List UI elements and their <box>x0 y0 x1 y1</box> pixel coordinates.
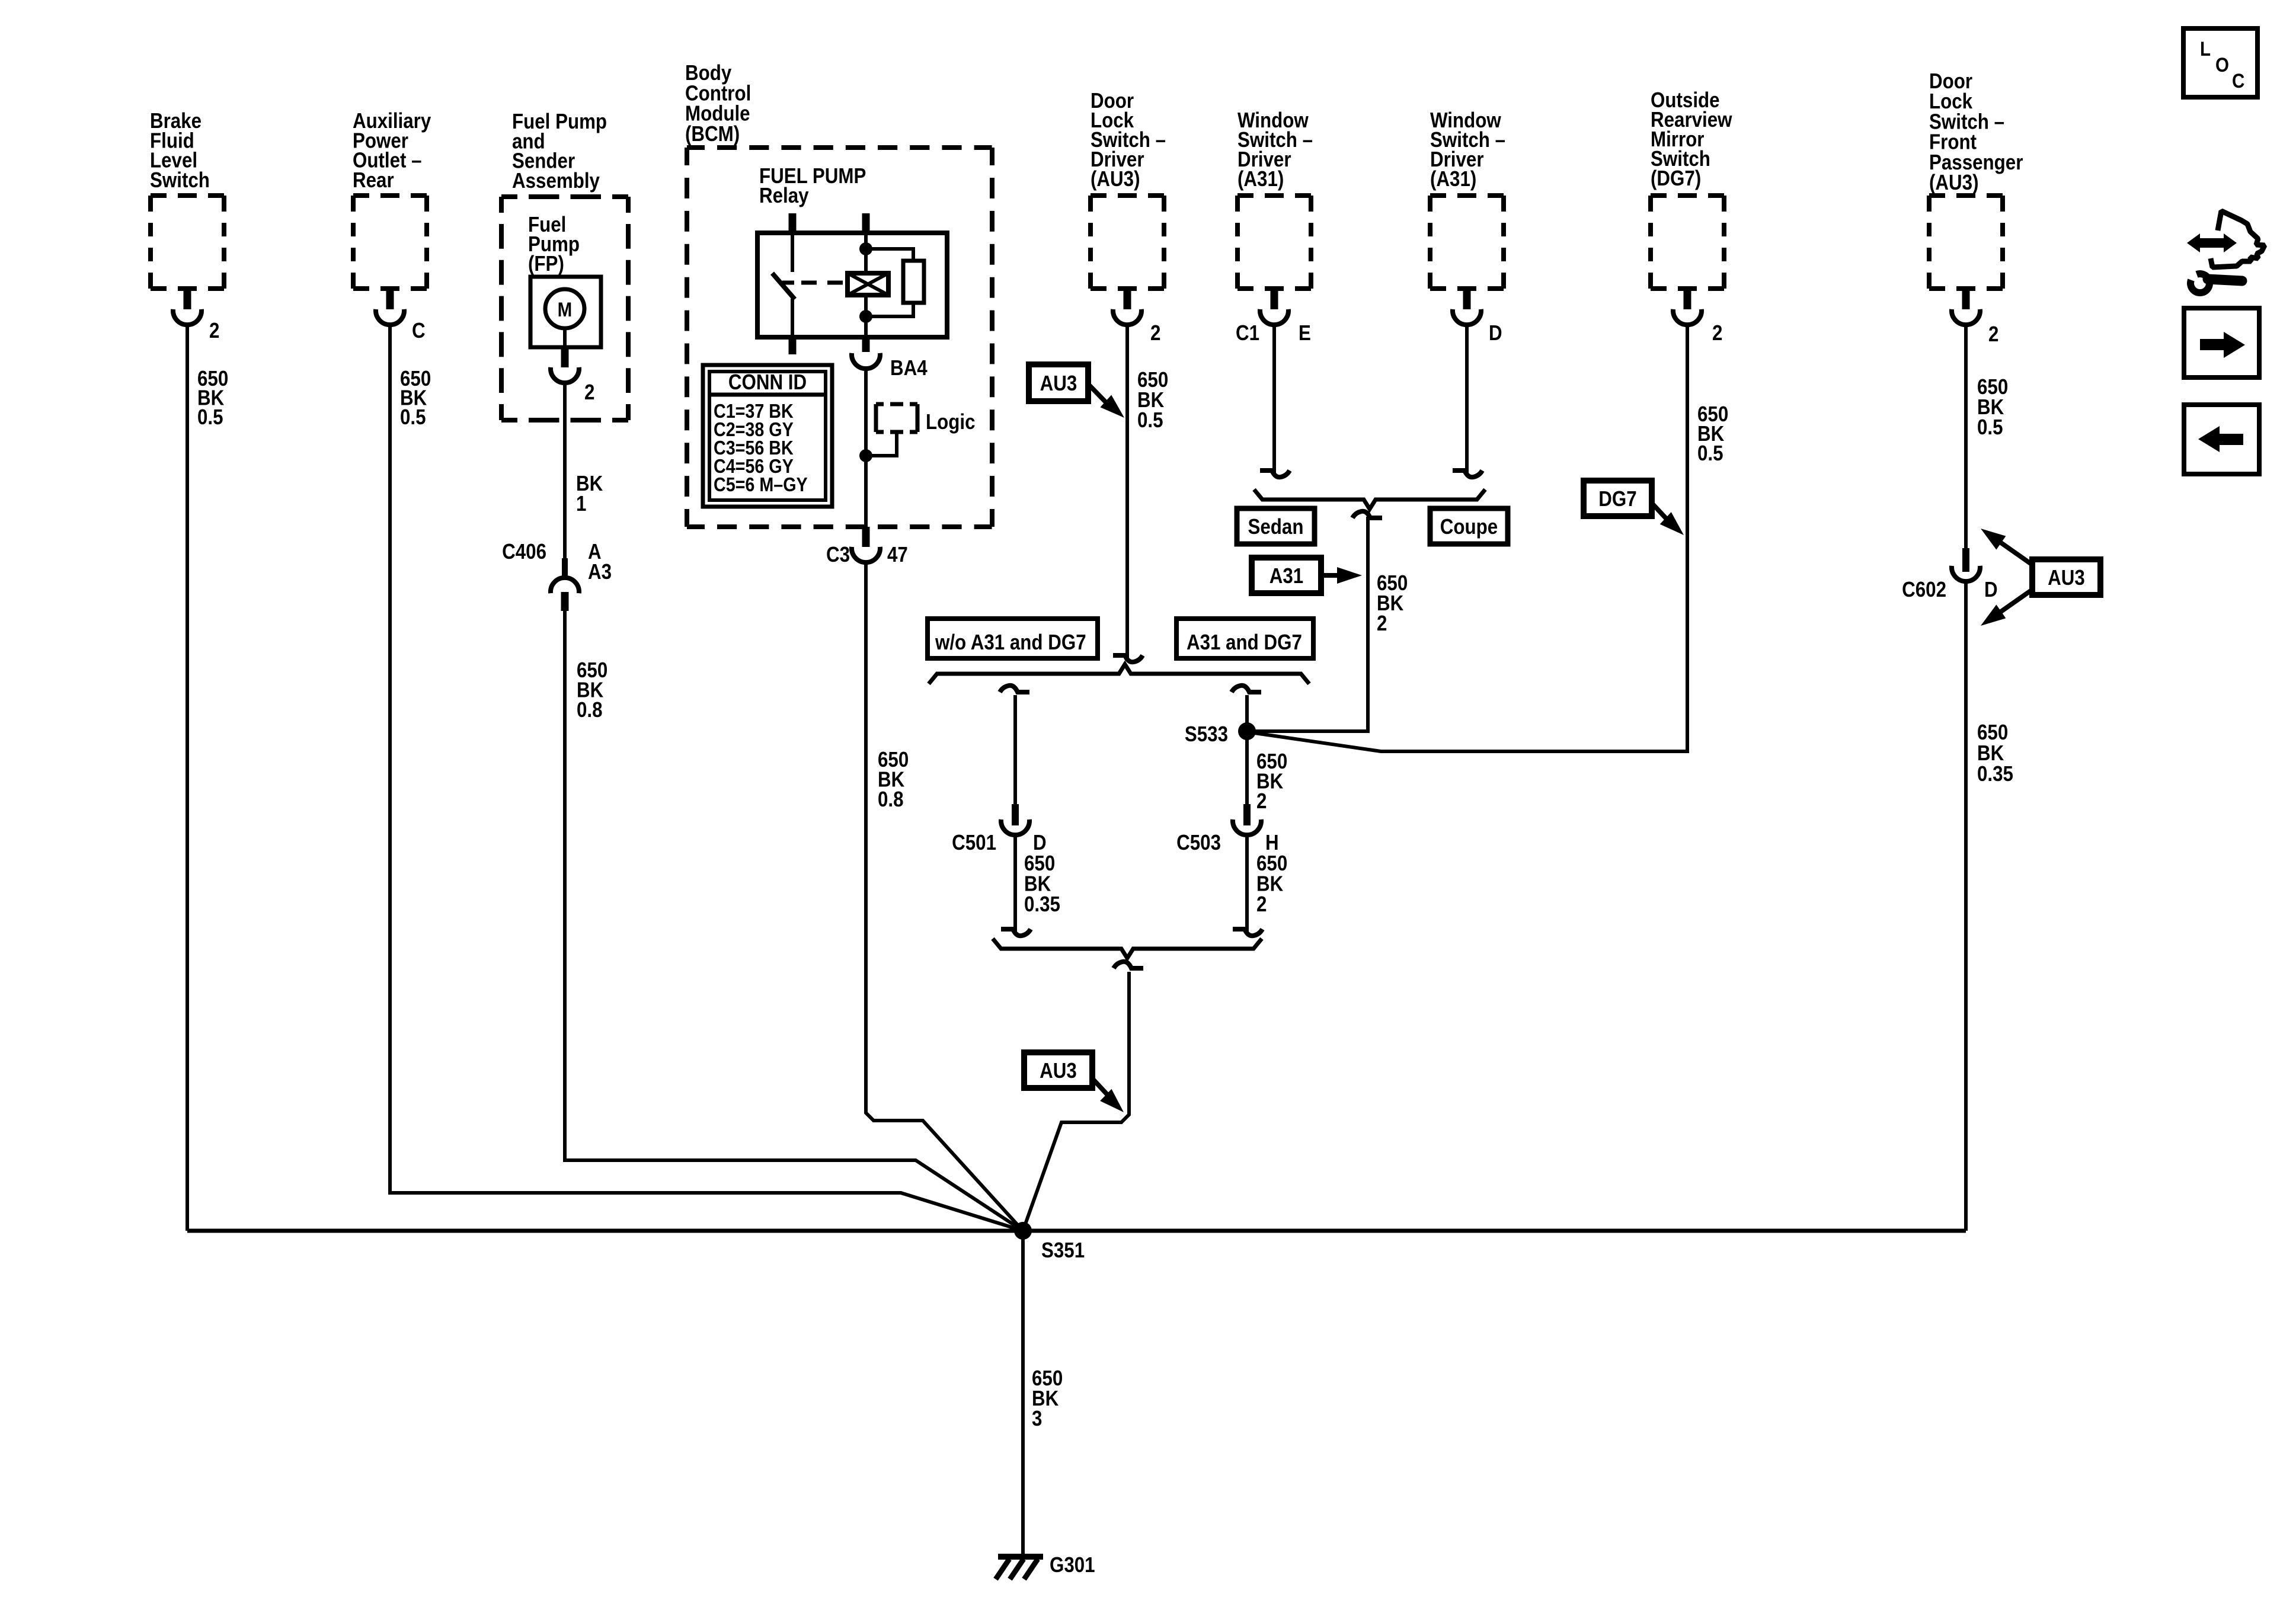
wire label 650 BK 3 <box>1032 1366 1063 1431</box>
svg-text:C406: C406 <box>502 540 546 564</box>
svg-text:A31 and DG7: A31 and DG7 <box>1187 630 1302 655</box>
connector label C602 <box>1902 578 1946 602</box>
label Door Lock Switch - Front Passenger (AU3) <box>1929 69 2023 195</box>
relay pin stub bottom right <box>862 337 870 352</box>
svg-text:D: D <box>1489 321 1502 345</box>
connector BA4 cup <box>852 353 880 369</box>
pin label 2 <box>1988 322 1998 347</box>
wire logic box to main wire <box>868 432 897 456</box>
relay pin stub top left <box>789 213 797 233</box>
wire label 650 BK 0.35 <box>1024 852 1060 917</box>
svg-text:AU3: AU3 <box>1040 1059 1077 1083</box>
svg-text:0.5: 0.5 <box>1137 408 1163 433</box>
tag A31 with arrow <box>1252 558 1362 593</box>
svg-text:C503: C503 <box>1176 831 1221 855</box>
wire label 650 BK 0.5 <box>1137 368 1168 433</box>
component Window Switch - Driver A31 coupe (dashed box) <box>1430 196 1504 289</box>
svg-text:C5=6 M–GY: C5=6 M–GY <box>714 473 808 495</box>
svg-text:(AU3): (AU3) <box>1929 171 1978 195</box>
svg-text:0.8: 0.8 <box>577 698 603 722</box>
component Outside Rearview Mirror Switch DG7 (dashed box) <box>1651 196 1724 289</box>
relay FUEL PUMP box <box>757 233 947 337</box>
relay switch blade <box>772 273 795 299</box>
svg-text:0.8: 0.8 <box>878 788 904 812</box>
connector terminal pin 2 (door lock switch driver) <box>1113 289 1141 325</box>
svg-text:2: 2 <box>1256 789 1267 814</box>
curl below sedan/coupe brace <box>1352 511 1382 518</box>
svg-text:(BCM): (BCM) <box>685 122 740 146</box>
wire 650 BK 0.5 (door lock driver to split brace) <box>1113 325 1143 662</box>
label Door Lock Switch - Driver (AU3) <box>1091 89 1166 191</box>
wire 650 BK 0.5 (front passenger lock switch to C602) <box>1964 325 1968 550</box>
vehicle service icon (car outline) <box>2211 211 2265 267</box>
wire label 650 BK 0.35 <box>1977 721 2013 786</box>
relay coil wire bottom <box>864 295 868 337</box>
wire merged branch to S351 <box>1023 972 1129 1231</box>
label Fuel Pump and Sender Assembly <box>512 110 607 193</box>
module Body Control Module BCM (dashed box) <box>687 148 992 527</box>
tag box Sedan <box>1237 508 1315 544</box>
svg-text:0.5: 0.5 <box>1977 415 2003 440</box>
svg-text:C602: C602 <box>1902 578 1946 602</box>
wire label 650 BK 2 (S533 to C503) <box>1256 750 1287 814</box>
connector terminal pin D (window switch coupe) <box>1453 289 1481 325</box>
connector terminal C3 pin 47 (BCM bottom) <box>852 527 880 562</box>
svg-text:2: 2 <box>1988 322 1998 347</box>
label Auxiliary Power Outlet - Rear <box>353 109 431 192</box>
wire label 650 BK 0.8 <box>878 748 909 812</box>
tag AU3 with double arrows (C602) <box>1981 529 2100 626</box>
table header CONN ID <box>728 370 807 395</box>
table rows connector ids <box>714 400 808 495</box>
connector label BA4 <box>890 356 928 380</box>
pin label D <box>1984 578 1998 602</box>
pin label D <box>1033 831 1047 855</box>
relay resistor loop <box>866 249 924 316</box>
relay actuator dashed link <box>801 281 844 285</box>
junction label S533 <box>1185 722 1228 747</box>
icon box arrow right <box>2184 308 2259 377</box>
component Fuel Pump and Sender Assembly (dashed box) <box>501 197 628 420</box>
svg-text:C1: C1 <box>1236 321 1259 345</box>
svg-text:Sedan: Sedan <box>1248 515 1304 539</box>
wire 650 BK 0.8 (BCM pin 47 to S351) <box>866 562 1023 1231</box>
svg-text:C: C <box>2232 69 2244 92</box>
label Body Control Module (BCM) <box>685 61 751 146</box>
pin label 47 <box>887 543 908 567</box>
svg-text:2: 2 <box>584 380 594 405</box>
option box w/o A31 and DG7 <box>928 619 1098 658</box>
wire window switch coupe to merge brace <box>1453 325 1482 477</box>
junction dot coil bottom <box>859 310 872 323</box>
svg-text:2: 2 <box>1712 321 1722 345</box>
brace merge sedan/coupe window switch wires <box>1254 489 1485 509</box>
table CONN ID box <box>703 365 832 507</box>
in-line connector C503 <box>1233 804 1261 835</box>
wire label BK 1 <box>576 472 603 516</box>
label Window Switch - Driver (A31) <box>1430 108 1505 191</box>
connector terminal pin 2 (fuel pump) <box>551 347 579 383</box>
wire relay to logic junction <box>864 369 868 527</box>
connector label C503 <box>1176 831 1221 855</box>
ground symbol G301 <box>996 1557 1043 1579</box>
svg-text:0.5: 0.5 <box>400 405 426 430</box>
wire 650 BK 0.5 (brake switch to S351 ground bus) <box>186 325 189 1231</box>
svg-text:A3: A3 <box>588 560 612 584</box>
LOC legend box <box>2183 28 2257 97</box>
relay pin stub bottom left <box>789 337 797 354</box>
wire 650 BK 0.5 (aux outlet to S351) <box>390 325 1023 1231</box>
wire right branch to S533 <box>1232 686 1261 806</box>
svg-text:Relay: Relay <box>759 184 809 208</box>
svg-text:0.35: 0.35 <box>1024 892 1060 917</box>
tag AU3 with arrow <box>1029 364 1124 418</box>
pin label 2 <box>209 319 219 343</box>
label Logic <box>926 410 975 434</box>
connector terminal pin E (window switch sedan) <box>1260 289 1288 325</box>
svg-text:S533: S533 <box>1185 722 1228 747</box>
label Window Switch - Driver (A31) <box>1237 108 1313 191</box>
pin label C1 <box>1236 321 1259 345</box>
connector label C406 <box>502 540 546 564</box>
svg-text:S351: S351 <box>1041 1238 1085 1263</box>
wire label 650 BK 2 <box>1256 852 1287 917</box>
svg-text:0.5: 0.5 <box>1697 441 1723 466</box>
wire 650 BK 2 (C503 to merge brace) <box>1233 835 1262 936</box>
ground bus wire (S351 splice) <box>187 1229 1966 1233</box>
ground label G301 <box>1050 1553 1095 1577</box>
junction dot S533 <box>1238 722 1256 740</box>
wire motor to box bottom <box>563 328 567 347</box>
svg-text:47: 47 <box>887 543 908 567</box>
svg-text:0.5: 0.5 <box>197 405 223 430</box>
junction dot coil top <box>859 242 872 255</box>
motor symbol M circle <box>545 289 584 328</box>
svg-text:O: O <box>2215 53 2229 76</box>
fuel pump motor box <box>530 277 601 347</box>
svg-text:M: M <box>558 298 573 321</box>
wire label 650 BK 0.5 <box>1697 402 1728 466</box>
pin label C <box>412 319 426 343</box>
svg-text:BA4: BA4 <box>890 356 928 380</box>
pin label E <box>1299 321 1311 345</box>
svg-text:(A31): (A31) <box>1237 167 1284 191</box>
relay switch fixed contact <box>782 233 794 283</box>
wire label 650 BK 0.5 <box>197 367 228 430</box>
wire label 650 BK 0.5 <box>400 367 431 430</box>
in-line connector C602 <box>1952 548 1980 581</box>
in-line connector C406 <box>551 558 579 611</box>
svg-text:Switch: Switch <box>150 168 210 193</box>
svg-text:D: D <box>1984 578 1998 602</box>
svg-text:C501: C501 <box>952 831 996 855</box>
wire 650 BK 0.8 (C406 to S351) <box>565 611 1023 1231</box>
connector terminal pin 2 (brake fluid level switch) <box>173 289 202 325</box>
svg-text:2: 2 <box>1377 612 1387 636</box>
junction dot logic <box>859 449 872 462</box>
wire 650 BK 0.35 (C602 to ground bus) <box>1964 581 1968 1231</box>
svg-text:(AU3): (AU3) <box>1091 167 1140 191</box>
svg-text:AU3: AU3 <box>1040 372 1077 396</box>
svg-text:2: 2 <box>209 319 219 343</box>
svg-text:2: 2 <box>1256 892 1267 917</box>
component Door Lock Switch - Front Passenger AU3 (dashed box) <box>1929 196 2003 289</box>
svg-text:AU3: AU3 <box>2048 566 2085 590</box>
relay pin stub top right <box>862 213 870 233</box>
brace merge C501/C503 branches <box>993 939 1262 958</box>
component Brake Fluid Level Switch (dashed box) <box>151 196 224 289</box>
svg-text:A31: A31 <box>1269 564 1303 588</box>
svg-text:G301: G301 <box>1050 1553 1095 1577</box>
connector terminal pin C (aux power outlet) <box>376 289 404 325</box>
junction dot S351 <box>1014 1222 1032 1240</box>
label Brake Fluid Level Switch <box>150 109 210 192</box>
relay switch common leg <box>791 299 794 337</box>
brace split door lock driver wire <box>929 664 1309 684</box>
connector terminal pin 2 (mirror switch) <box>1673 289 1702 325</box>
icon box arrow left <box>2184 405 2259 474</box>
relay coil wire top <box>864 233 868 273</box>
wire window switch sedan to merge brace <box>1260 325 1290 477</box>
wire label 650 BK 2 <box>1377 571 1408 636</box>
svg-text:1: 1 <box>576 492 586 516</box>
wire BK 1 (fuel pump to C406) <box>563 383 567 578</box>
wire 650 BK 2 (merged window switches to S533) <box>1255 517 1368 731</box>
svg-text:2: 2 <box>1150 321 1160 345</box>
tag AU3 with arrow (merged branch) <box>1024 1052 1124 1112</box>
wire 650 BK 0.5 (mirror switch to S533) <box>1251 325 1687 751</box>
pin label 2 <box>1712 321 1722 345</box>
component Auxiliary Power Outlet - Rear (dashed box) <box>353 196 427 289</box>
junction label S351 <box>1041 1238 1085 1263</box>
connector label C501 <box>952 831 996 855</box>
svg-text:(FP): (FP) <box>528 252 564 276</box>
wire 650 BK 0.35 (C501 to merge brace) <box>1001 835 1031 936</box>
svg-text:L: L <box>2200 37 2211 60</box>
pin label 2 <box>1150 321 1160 345</box>
svg-text:DG7: DG7 <box>1598 487 1636 511</box>
pin label H <box>1265 831 1279 855</box>
pin labels A / A3 <box>588 540 612 584</box>
wire label 650 BK 0.5 <box>1977 375 2008 440</box>
pin label 2 <box>584 380 594 405</box>
svg-text:(DG7): (DG7) <box>1651 167 1701 191</box>
vehicle icon wrench <box>2191 274 2242 293</box>
logic box (dashed) <box>876 404 917 432</box>
svg-text:(A31): (A31) <box>1430 167 1476 191</box>
svg-text:Coupe: Coupe <box>1440 515 1498 539</box>
pin label D <box>1489 321 1502 345</box>
svg-text:3: 3 <box>1032 1407 1042 1431</box>
wire label 650 BK 0.8 <box>577 658 607 722</box>
svg-text:CONN ID: CONN ID <box>728 370 807 395</box>
svg-text:Rear: Rear <box>353 168 394 193</box>
wire 650 BK 3 (S351 to G301) <box>1021 1231 1025 1557</box>
svg-text:w/o A31 and DG7: w/o A31 and DG7 <box>935 630 1086 655</box>
component Door Lock Switch - Driver AU3 (dashed box) <box>1091 196 1164 289</box>
tag box Coupe <box>1430 508 1508 544</box>
wire left branch to C501 <box>1000 686 1029 806</box>
svg-text:0.35: 0.35 <box>1977 762 2013 786</box>
svg-text:Logic: Logic <box>926 410 975 434</box>
curl below merge brace <box>1114 962 1143 968</box>
component Window Switch - Driver A31 sedan (dashed box) <box>1237 196 1311 289</box>
label FUEL PUMP Relay <box>759 164 866 208</box>
tag DG7 with arrow <box>1584 481 1684 535</box>
connector label C3 <box>826 543 850 567</box>
svg-text:C: C <box>412 319 426 343</box>
vehicle icon double arrow <box>2187 233 2237 252</box>
svg-text:C3: C3 <box>826 543 850 567</box>
in-line connector C501 <box>1001 804 1029 835</box>
label Outside Rearview Mirror Switch (DG7) <box>1651 88 1732 191</box>
connector terminal pin 2 (door lock front passenger) <box>1952 289 1980 325</box>
svg-text:Assembly: Assembly <box>512 169 600 193</box>
label Fuel Pump (FP) <box>528 213 580 276</box>
relay coil box with X <box>848 273 888 295</box>
svg-text:E: E <box>1299 321 1311 345</box>
option box A31 and DG7 <box>1176 619 1313 658</box>
